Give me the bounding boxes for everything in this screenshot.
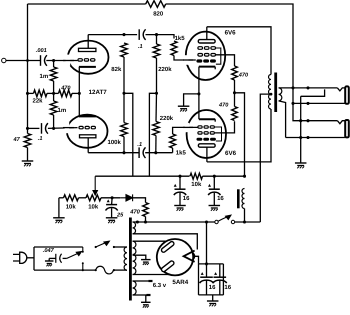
resistor 1k5 (upper grid stopper) bbox=[171, 41, 177, 56]
ground (NFB network) bbox=[22, 161, 34, 166]
resistor 470 (cathode bias V1) bbox=[59, 90, 73, 97]
wire: 10k chain left end to ground bbox=[59, 198, 64, 218]
junction screen mid node bbox=[233, 91, 236, 94]
V3 grid row 2 (screen) bbox=[198, 132, 215, 134]
wire: V2 plate to OT primary top bbox=[207, 27, 271, 75]
V1a envelope gap at grid bbox=[63, 55, 74, 66]
svg-text:22k: 22k bbox=[33, 98, 44, 105]
svg-text:47: 47 bbox=[13, 137, 21, 143]
node D junction bbox=[26, 92, 29, 95]
V1a cathode bar bbox=[79, 66, 96, 68]
V2 cathode bar bbox=[199, 66, 215, 68]
junction 220k top bbox=[155, 33, 158, 36]
PT 6.3V stub top bbox=[133, 280, 153, 282]
resistor 470 (upper screen) bbox=[232, 66, 238, 80]
switch S1a lower tick bbox=[82, 262, 84, 270]
wire: 100k to lower plate line bbox=[123, 137, 125, 153]
PT 6.3V stub bottom bbox=[133, 294, 151, 296]
wire: filter line to choke node bbox=[203, 175, 245, 177]
junction NFB takeoff bbox=[291, 86, 294, 89]
label 100k bbox=[108, 139, 122, 146]
OT secondary winding bbox=[279, 88, 282, 101]
junction fuse right bbox=[113, 269, 115, 271]
junction bus 1 bbox=[205, 262, 208, 265]
svg-text:10k: 10k bbox=[66, 204, 77, 211]
wire: diode to 470 bbox=[133, 198, 146, 203]
svg-text:.001: .001 bbox=[36, 48, 47, 54]
wire: cap to blade pivot bbox=[63, 257, 67, 259]
junction 5V top tap bbox=[136, 220, 139, 223]
wire: mains bottom line bbox=[34, 269, 96, 271]
resistor 47 (NFB shunt) bbox=[24, 134, 31, 148]
junction sleeve2 ground bbox=[299, 136, 302, 139]
V2 screen lead bbox=[216, 55, 235, 66]
junction filter cap 1 bbox=[178, 175, 181, 178]
wire: cap bus left side bbox=[198, 264, 200, 295]
svg-text:5AR4: 5AR4 bbox=[172, 279, 188, 286]
V1b grid dashes bbox=[79, 126, 95, 128]
wire: HV top to plate 1 bbox=[133, 240, 167, 242]
wire: cap to 1k5 corner bbox=[146, 35, 175, 39]
PT 5V winding bbox=[133, 222, 136, 234]
label .1 (lower) bbox=[137, 142, 142, 148]
ground (filter cap 1) bbox=[174, 206, 186, 211]
switch S1a blade bbox=[67, 252, 82, 259]
switch S1b right contact bbox=[113, 246, 115, 248]
svg-text:16: 16 bbox=[209, 284, 216, 291]
wire: 470 to B+ line bbox=[145, 217, 147, 223]
junction reservoir feed bbox=[205, 220, 208, 223]
label 1m (lower) bbox=[58, 107, 67, 114]
wire: V1a plate line bbox=[88, 34, 137, 36]
wire: 6.3V to ground bbox=[145, 295, 147, 302]
capacitor .1 (upper coupling) bbox=[139, 29, 145, 40]
wire: parallel tip feed bbox=[293, 88, 337, 121]
svg-text:.1: .1 bbox=[38, 136, 43, 142]
ground (filter cap 2) bbox=[209, 206, 221, 211]
plus sign (filter 1) bbox=[174, 184, 177, 187]
label 82k bbox=[111, 66, 122, 73]
junction 82k top bbox=[122, 33, 125, 36]
junction 220k bottom bbox=[154, 151, 157, 154]
V3 grid row 3 bbox=[197, 138, 216, 141]
wire: filament output lead bbox=[193, 256, 198, 264]
label 5AR4 bbox=[172, 279, 188, 286]
resistor 1k5 (lower grid stopper) bbox=[170, 134, 176, 148]
wire: cap lead to mini ground bbox=[48, 258, 50, 260]
wire: cap to node C / V1b grid bbox=[48, 127, 78, 130]
V2 plate lead up bbox=[206, 27, 208, 40]
wire: cap to 1k5 lower bbox=[145, 152, 172, 154]
resistor 1m (upper grid leak) bbox=[50, 67, 57, 81]
wire: B+ branch left pair bbox=[124, 93, 133, 176]
label 220k (lower) bbox=[160, 115, 174, 122]
wire: 1m to node B bbox=[53, 81, 55, 93]
label 16 (filter 2) bbox=[217, 195, 224, 202]
PT core bbox=[129, 218, 132, 301]
svg-text:82k: 82k bbox=[111, 66, 122, 73]
resistor 82k (V1a plate load) bbox=[121, 43, 128, 57]
wire: fuse to PT primary bottom bbox=[114, 269, 128, 271]
wire: J2 sleeve line bbox=[286, 137, 345, 139]
label 470 (upper screen) bbox=[238, 72, 249, 78]
standby switch left contact bbox=[215, 220, 218, 223]
ground (25uF) bbox=[106, 218, 118, 223]
wire: lower 1m to node C bbox=[53, 115, 55, 128]
junction 470 at B+ line bbox=[144, 220, 147, 223]
wire: 10k to 25uF node bbox=[101, 197, 120, 199]
node B junction bbox=[52, 92, 55, 95]
V1b cathode lead up bbox=[78, 93, 80, 116]
node E junction bbox=[26, 127, 29, 130]
wire: grid A to 1m bbox=[53, 61, 55, 68]
plus sign (filter 2) bbox=[208, 184, 211, 187]
svg-text:12AT7: 12AT7 bbox=[89, 89, 108, 96]
wire: OT secondary bottom lead bbox=[279, 101, 286, 138]
switch S1b left contact bbox=[95, 246, 97, 248]
ground (speaker jacks) bbox=[295, 163, 307, 168]
ground (line filter cap) bbox=[45, 261, 54, 266]
capacitor 16 (filter 1) bbox=[174, 176, 186, 205]
capacitor .001 (input coupling) bbox=[41, 55, 47, 66]
standby switch right contact bbox=[231, 220, 234, 223]
capacitor 16 (reservoir 2) bbox=[213, 264, 227, 295]
resistor 220k (upper divider) bbox=[153, 44, 160, 58]
input terminal bbox=[2, 58, 6, 62]
switch S1b blade bbox=[96, 241, 110, 247]
diode (bias rectifier) bbox=[120, 194, 132, 201]
cathode junction bbox=[78, 92, 81, 95]
svg-text:16: 16 bbox=[217, 195, 224, 202]
ground (6V6 cathodes) bbox=[178, 106, 190, 111]
label 820 bbox=[153, 10, 164, 17]
tube V2 6V6 upper envelope bbox=[186, 32, 225, 80]
svg-text:100k: 100k bbox=[108, 139, 122, 146]
label .001 bbox=[36, 48, 47, 54]
svg-text:1k5: 1k5 bbox=[175, 35, 186, 42]
PT 6.3V winding bbox=[133, 281, 137, 295]
ground (6.3V winding) bbox=[141, 302, 151, 307]
V3 plate bar bbox=[198, 144, 215, 147]
resistor 1m (lower grid leak) bbox=[50, 101, 57, 115]
AC plug bbox=[13, 252, 27, 263]
resistor 220k (lower divider) bbox=[153, 122, 160, 136]
V2 internal bracket bbox=[216, 48, 221, 64]
junction lower tick bbox=[82, 269, 84, 271]
svg-text:470: 470 bbox=[218, 103, 229, 109]
wire: input to coupling cap bbox=[6, 60, 41, 62]
wire: NFB line into 47 bbox=[27, 128, 29, 133]
label 1k5 (lower) bbox=[176, 149, 187, 156]
resistor 820 (negative feedback) bbox=[146, 1, 166, 8]
wire: mains split vertical bbox=[33, 247, 35, 270]
wire: cathodes to ground bbox=[184, 94, 199, 106]
V3 cathode tick bbox=[214, 119, 216, 122]
wire: divider mid branch bbox=[149, 93, 156, 176]
V3 cathode bar bbox=[199, 118, 215, 120]
wire: rectifier B+ line bbox=[133, 221, 215, 223]
V3 internal bracket bbox=[215, 127, 222, 141]
V2 grid row 2 (screen) bbox=[198, 54, 216, 57]
wire: cap to V1a grid bbox=[46, 60, 77, 62]
wire: 220k to mid node bbox=[156, 58, 158, 93]
OT core bbox=[274, 73, 277, 113]
wire: bus to ground bbox=[212, 295, 214, 301]
plus sign (reservoir 1) bbox=[201, 272, 204, 275]
svg-text:470: 470 bbox=[238, 72, 249, 78]
svg-text:1m: 1m bbox=[58, 107, 67, 114]
wire: 1k5 to V6a grid bbox=[174, 56, 196, 61]
wire: NFB top line right segment + drop to output bbox=[166, 4, 293, 88]
wire: lower 220k to plate line bbox=[155, 136, 157, 153]
capacitor .1 (lower coupling) bbox=[139, 147, 145, 158]
resistor 10k (B+ filter) bbox=[190, 173, 203, 179]
label 22k bbox=[33, 98, 44, 105]
V1a grid dashes bbox=[78, 59, 95, 61]
resistor 10k (bias pot) bbox=[86, 195, 101, 201]
V2 cathode tick bbox=[214, 67, 216, 70]
wire: V1b plate line bbox=[88, 152, 139, 154]
capacitor .047 (line filter) bbox=[56, 254, 62, 263]
wire: between 10k resistors bbox=[79, 197, 87, 199]
V1b plate lead down bbox=[87, 138, 89, 153]
switch S1a fixed contact bbox=[82, 247, 84, 253]
V2 cathode lead down bbox=[198, 67, 200, 94]
junction sleeve1 at NFB line bbox=[291, 102, 294, 105]
svg-text:10k: 10k bbox=[191, 181, 202, 188]
V1a plate lead up bbox=[87, 35, 89, 49]
label 470 (cathode) bbox=[60, 85, 71, 91]
wire: screen mid node to choke line bbox=[235, 93, 245, 176]
OT center tap bbox=[260, 93, 272, 222]
junction filter cap 2 bbox=[213, 175, 216, 178]
plus sign (25uF) bbox=[107, 199, 110, 202]
svg-text:220k: 220k bbox=[158, 66, 172, 73]
wire: cap left lead bbox=[49, 257, 56, 259]
V3 envelope gap at grid bbox=[183, 123, 193, 132]
node A junction (V1a grid) bbox=[52, 59, 55, 62]
tube V1a 12AT7 upper triode envelope bbox=[68, 41, 109, 74]
label 12AT7 bbox=[89, 89, 108, 96]
fuse bbox=[96, 266, 114, 274]
capacitor .1 (NFB injection) bbox=[42, 123, 48, 134]
wire: 470 to cathode node bbox=[72, 92, 80, 94]
jack J1 tip notch bbox=[337, 88, 344, 91]
svg-text:220k: 220k bbox=[160, 115, 174, 122]
label .047 bbox=[43, 248, 55, 254]
PT HV center tap bbox=[133, 255, 146, 259]
wire: cap bus right side bbox=[222, 264, 224, 295]
V2 envelope gap at grid bbox=[183, 55, 193, 65]
resistor 470 (lower screen) bbox=[232, 107, 238, 121]
label 10k (filter) bbox=[191, 181, 202, 188]
V3 cathode lead up bbox=[198, 94, 200, 119]
wire: choke to standby line bbox=[244, 209, 246, 223]
junction choke top bbox=[243, 175, 246, 178]
wire: 47 to ground bbox=[27, 148, 29, 162]
jack J2 barrel bbox=[345, 120, 349, 137]
wire: B+ node to 100k bbox=[123, 93, 125, 122]
wire: screen resistor to mid node bbox=[234, 80, 236, 93]
jack J1 shunt contact bbox=[301, 89, 325, 96]
resistor 470 (bias dropper) bbox=[143, 203, 149, 217]
jack J2 tip notch bbox=[337, 121, 344, 124]
svg-text:470: 470 bbox=[129, 208, 140, 215]
V1a cathode lead down bbox=[78, 67, 80, 94]
junction NFB at input line bbox=[26, 59, 29, 62]
V1b envelope gap at grid bbox=[63, 122, 74, 133]
wire: NFB top line left segment bbox=[28, 3, 146, 5]
svg-text:.047: .047 bbox=[43, 248, 55, 254]
svg-text:6V6: 6V6 bbox=[225, 150, 237, 157]
wire: plate line to 220k bbox=[156, 35, 158, 44]
wire: OT secondary top to jacks bbox=[279, 87, 338, 89]
wire: lower 1k5 bottom lead bbox=[172, 148, 174, 153]
svg-text:16: 16 bbox=[224, 284, 231, 291]
label 1m (upper) bbox=[40, 73, 49, 80]
wire: node D to 22k bbox=[28, 92, 34, 94]
V2 plate bar bbox=[198, 40, 215, 43]
label 25 bbox=[116, 213, 124, 219]
ground (reservoir) bbox=[207, 301, 219, 306]
label 6V6 (upper) bbox=[225, 30, 237, 37]
label 16 (filter 1) bbox=[183, 195, 190, 202]
V1a plate bar bbox=[79, 48, 96, 51]
tube V1b 12AT7 lower triode envelope bbox=[67, 115, 108, 148]
V4 plate 2 bbox=[161, 260, 175, 272]
svg-text:6.3 v: 6.3 v bbox=[153, 282, 167, 289]
wire: filament feed from 5V winding bbox=[133, 234, 198, 250]
V4 plate 1 bbox=[161, 241, 175, 253]
label 10k (bias 1) bbox=[66, 204, 77, 211]
resistor 100k (V1b plate load) bbox=[121, 123, 128, 137]
V3 grid row 1 (control) bbox=[198, 126, 215, 128]
label 470 (bias) bbox=[129, 208, 140, 215]
wire: mid node to lower screen resistor bbox=[234, 93, 236, 107]
junction fuse left bbox=[95, 269, 97, 271]
wire: preamp B+ line bbox=[95, 175, 189, 177]
label 47 bbox=[13, 137, 21, 143]
ground (10k chain) bbox=[53, 218, 65, 223]
V2 grid row 3 (control) bbox=[196, 59, 216, 62]
junction 25uF cap bbox=[111, 196, 114, 199]
PT primary winding bbox=[124, 247, 127, 270]
wire: switch to PT primary top bbox=[114, 246, 127, 248]
svg-text:16: 16 bbox=[183, 195, 190, 202]
wire: 22k to node B bbox=[47, 92, 59, 94]
jack J1 barrel bbox=[345, 86, 349, 103]
wire: switch to CT line bbox=[235, 221, 261, 223]
junction choke bottom bbox=[243, 220, 246, 223]
tube V3 6V6 lower envelope bbox=[187, 110, 226, 158]
wire: mains top line bbox=[34, 246, 83, 248]
wire: reservoir feed down bbox=[206, 222, 208, 264]
resistor 10k (bias 1) bbox=[64, 195, 79, 201]
OT primary winding bbox=[269, 75, 271, 110]
svg-text:1m: 1m bbox=[40, 73, 49, 80]
wire: lower 1k5 to V6b grid bbox=[173, 127, 198, 134]
junction sleeve1 bus bbox=[306, 102, 309, 105]
capacitor 25 (bias filter) bbox=[106, 198, 118, 218]
svg-text:820: 820 bbox=[153, 10, 164, 17]
plus sign (reservoir 2) bbox=[214, 272, 217, 275]
wire: J1 sleeve line bbox=[293, 102, 345, 104]
label 6.3 v bbox=[153, 282, 167, 289]
choke core bbox=[237, 189, 240, 208]
PT HV winding bbox=[133, 241, 136, 274]
wire: node E to .1 cap bbox=[28, 127, 40, 129]
wire: mid node to lower 220k bbox=[155, 93, 158, 121]
capacitor 16 (reservoir 1) bbox=[200, 264, 214, 295]
wire: plug to split bbox=[27, 257, 34, 259]
wire: NFB left vertical bbox=[27, 4, 29, 128]
label 6V6 (lower) bbox=[225, 150, 237, 157]
junction shunt crossing bbox=[299, 119, 302, 122]
junction 6V6 cathodes bbox=[197, 92, 200, 95]
junction tip2 bus bbox=[306, 119, 309, 122]
wire: cap bus top bbox=[199, 263, 224, 265]
junction sleeve2 bus bbox=[306, 136, 309, 139]
node C junction bbox=[52, 127, 55, 130]
junction divider mid bbox=[155, 92, 158, 95]
V3 screen lead bbox=[215, 121, 235, 133]
pot wiper arrow bbox=[93, 176, 97, 195]
svg-text:.1: .1 bbox=[138, 44, 143, 50]
wire: node B to lower 1m bbox=[53, 93, 55, 101]
junction plate-supply left bbox=[122, 92, 125, 95]
wire: cap bus bottom bbox=[199, 294, 224, 296]
label .1 (NFB cap) bbox=[38, 136, 43, 142]
label 1k5 (upper) bbox=[175, 35, 186, 42]
junction tip bus bbox=[306, 86, 309, 89]
label .1 (upper) bbox=[138, 44, 143, 50]
ground (HV center tap) bbox=[141, 260, 151, 265]
label 16 (reservoir 2) bbox=[224, 284, 231, 291]
V1b cathode bar bbox=[79, 115, 96, 117]
label 10k (bias 2) bbox=[88, 204, 99, 211]
choke winding bbox=[242, 189, 245, 209]
svg-text:470: 470 bbox=[60, 85, 71, 91]
label 220k (upper) bbox=[158, 66, 172, 73]
standby switch blade bbox=[218, 215, 231, 221]
label 470 (lower screen) bbox=[218, 103, 229, 109]
svg-text:6V6: 6V6 bbox=[225, 30, 237, 37]
svg-text:1k5: 1k5 bbox=[176, 149, 187, 156]
V2 grid row 1 bbox=[198, 47, 216, 50]
svg-text:.1: .1 bbox=[137, 142, 142, 148]
V3 plate lead down bbox=[206, 147, 208, 162]
V4 filament bbox=[184, 251, 195, 262]
wire: 82k to B+ node bbox=[123, 57, 125, 93]
capacitor 16 (filter 2) bbox=[208, 176, 220, 205]
label 16 (reservoir 1) bbox=[209, 284, 216, 291]
wire: shunt to ground bbox=[300, 96, 302, 162]
svg-text:10k: 10k bbox=[88, 204, 99, 211]
wire: V3 plate line to OT primary bottom bbox=[207, 109, 271, 162]
junction 100k bottom bbox=[122, 151, 125, 154]
wire: HV bottom to plate 2 bbox=[133, 274, 170, 276]
resistor 22k bbox=[34, 90, 48, 97]
V1b plate bar bbox=[80, 135, 96, 138]
tube V4 5AR4 envelope bbox=[157, 239, 193, 275]
